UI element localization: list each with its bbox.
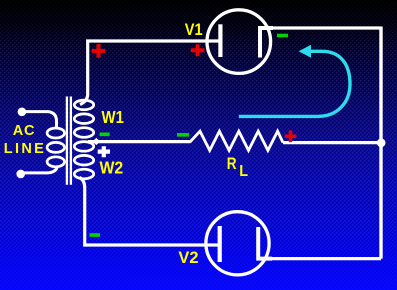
polarity + (red, left of V1): [191, 44, 205, 56]
wire: V2 cathode to right rail: [270, 257, 381, 260]
polarity + (white, center tap): [98, 146, 110, 157]
svg-text:W2: W2: [100, 157, 124, 177]
svg-text:AC: AC: [13, 123, 35, 139]
svg-text:LINE: LINE: [4, 141, 44, 157]
transformer T1 primary winding: [47, 128, 64, 167]
label RL: [227, 154, 248, 180]
wire: bottom primary lead: [21, 168, 57, 173]
tube V1 cathode (inverted-L element): [260, 28, 273, 58]
wire: top wire from transformer secondary top to V1 plate: [80, 41, 220, 105]
transformer T1 core: [67, 97, 71, 185]
svg-text:V1: V1: [185, 21, 203, 39]
svg-text:V2: V2: [178, 248, 198, 267]
terminal dot (AC line, bottom): [16, 170, 25, 179]
tube V1 plate (left vertical bar): [218, 24, 222, 57]
svg-text:W1: W1: [102, 107, 125, 127]
polarity + (red, resistor right): [285, 130, 297, 142]
wire: V1 cathode to right rail: [271, 26, 381, 29]
wire: top primary lead: [22, 112, 57, 128]
wire: resistor to right rail: [283, 141, 381, 144]
terminal dot (AC line, top): [18, 108, 27, 117]
svg-text:R: R: [227, 154, 237, 173]
tube V2 envelope (circle): [206, 212, 269, 275]
resistor RL: [190, 131, 283, 150]
polarity - (green, bottom wire near transformer): [90, 233, 101, 237]
tube V1 envelope (circle): [207, 10, 271, 74]
polarity - (green, center tap): [100, 133, 110, 137]
transformer T1 secondary winding W1/W2: [74, 100, 93, 179]
polarity - (green, resistor left): [177, 133, 189, 137]
wire: secondary bottom lead to V2 plate: [80, 178, 220, 246]
wire: center tap to resistor: [88, 140, 191, 143]
wire: right rail (vertical): [379, 27, 382, 259]
node: center tap junction: [93, 138, 100, 145]
polarity - (green, right of V1): [277, 34, 288, 38]
current-flow arrow (cyan): [239, 45, 350, 117]
node: junction dot on right rail: [377, 139, 386, 148]
tube V2 plate (left vertical bar): [218, 226, 222, 262]
polarity + (red, top left): [92, 44, 106, 58]
svg-text:L: L: [239, 163, 248, 180]
tube V2 cathode (L element): [258, 227, 272, 259]
